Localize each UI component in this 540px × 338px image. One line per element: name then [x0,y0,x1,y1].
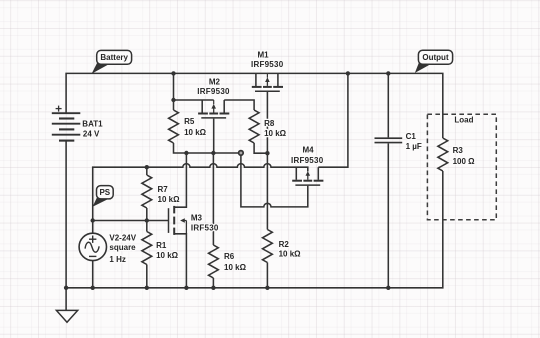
svg-text:10 kΩ: 10 kΩ [158,195,181,204]
svg-text:BAT1: BAT1 [82,119,103,128]
svg-text:IRF9530: IRF9530 [197,87,230,96]
svg-text:R6: R6 [224,252,235,261]
svg-text:IRF530: IRF530 [191,224,219,233]
svg-text:square: square [109,243,136,252]
svg-text:PS: PS [99,188,110,197]
svg-text:10 kΩ: 10 kΩ [264,129,287,138]
svg-text:Output: Output [422,53,449,62]
svg-text:IRF9530: IRF9530 [251,60,284,69]
svg-text:10 kΩ: 10 kΩ [184,128,207,137]
svg-text:1 µF: 1 µF [406,142,422,151]
svg-text:R5: R5 [184,117,195,126]
svg-text:M4: M4 [302,145,314,154]
svg-text:R2: R2 [279,240,290,249]
svg-text:100 Ω: 100 Ω [453,157,476,166]
svg-text:Load: Load [454,116,473,125]
svg-text:R1: R1 [156,241,167,250]
svg-text:R7: R7 [158,185,169,194]
svg-text:Battery: Battery [100,53,128,62]
svg-text:M1: M1 [257,50,269,59]
svg-text:M3: M3 [191,214,203,223]
svg-text:V2-24V: V2-24V [109,234,136,243]
svg-text:M2: M2 [209,77,221,86]
svg-text:10 kΩ: 10 kΩ [224,263,247,272]
svg-text:24 V: 24 V [83,129,100,138]
svg-text:10 kΩ: 10 kΩ [156,251,179,260]
svg-text:1 Hz: 1 Hz [109,255,125,264]
svg-text:R8: R8 [264,119,275,128]
svg-text:IRF9530: IRF9530 [291,156,324,165]
svg-text:C1: C1 [406,132,417,141]
svg-text:10 kΩ: 10 kΩ [279,250,302,259]
svg-text:R3: R3 [453,146,464,155]
